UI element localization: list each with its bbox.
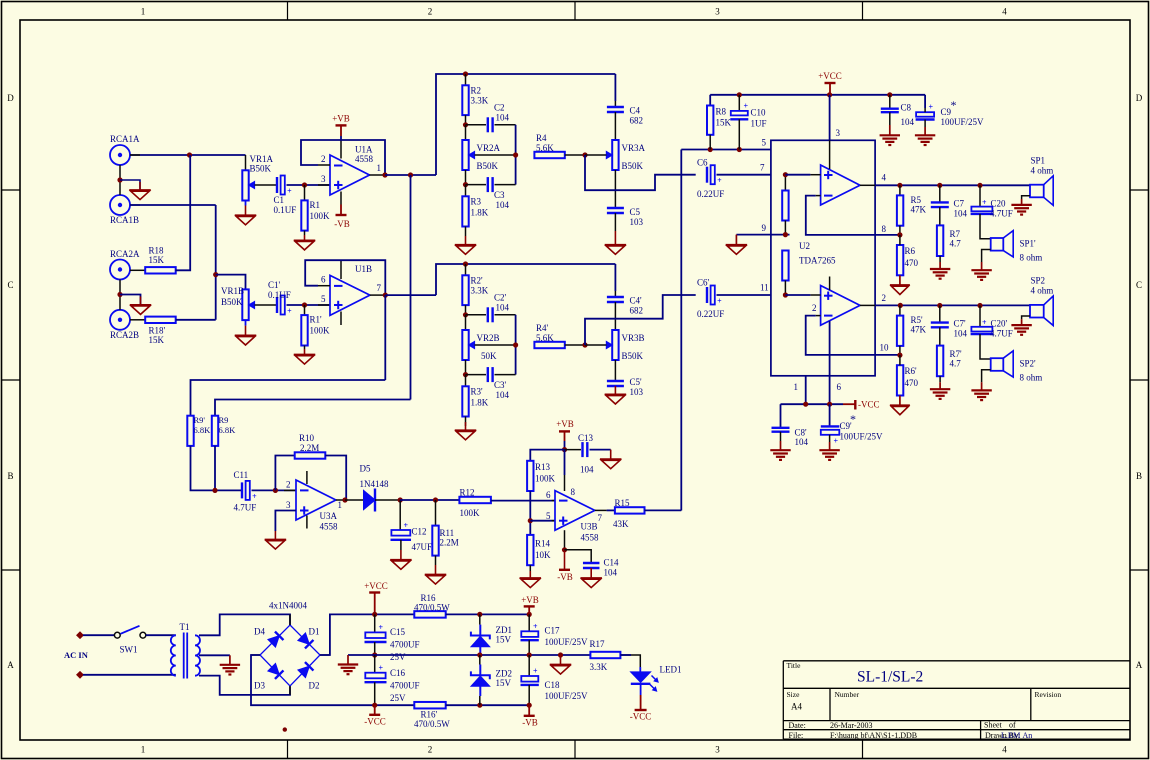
- svg-text:R2: R2: [471, 86, 482, 96]
- svg-text:+VB: +VB: [556, 419, 574, 429]
- svg-text:4.7: 4.7: [950, 239, 962, 249]
- svg-text:R15: R15: [615, 498, 631, 508]
- svg-text:+: +: [834, 437, 839, 446]
- capacitor C8: [887, 92, 892, 97]
- node R8 bottom: [708, 147, 713, 152]
- node pin2: [898, 303, 903, 308]
- power +VCC amp: [827, 92, 832, 97]
- svg-text:4.7UF: 4.7UF: [234, 503, 257, 513]
- svg-text:+: +: [287, 307, 292, 316]
- wire C6 to U2 pin7: [717, 174, 771, 176]
- speaker SP1: [1030, 185, 1044, 198]
- svg-text:6: 6: [321, 275, 326, 285]
- bridge rectifier diamond: [260, 625, 320, 686]
- node R11 top: [433, 497, 438, 502]
- svg-text:3: 3: [836, 128, 841, 138]
- resistor R16: [414, 611, 445, 618]
- svg-text:*: *: [850, 412, 856, 426]
- node R2 bottom: [465, 115, 467, 125]
- svg-text:B: B: [7, 471, 13, 481]
- wire tap to VR1B: [216, 275, 246, 290]
- op-amp U1B: [330, 275, 370, 315]
- ground R1': [304, 346, 306, 350]
- node RCA1A junction: [187, 152, 192, 157]
- capacitor C13: [565, 449, 582, 451]
- capacitor C16: [374, 655, 376, 673]
- capacitor C6: [706, 167, 708, 183]
- svg-text:Number: Number: [835, 690, 860, 699]
- svg-text:1: 1: [338, 500, 343, 510]
- ground C8': [780, 432, 782, 441]
- svg-text:1: 1: [377, 163, 382, 173]
- resistor R6': [897, 365, 903, 395]
- wire C2-C3 loop': [515, 315, 517, 375]
- svg-text:Size: Size: [787, 690, 801, 699]
- wire U3A pin3 ground: [275, 511, 296, 532]
- wire C1' to U1B pin5: [287, 304, 331, 306]
- node wiper: [513, 152, 518, 157]
- svg-text:VR2B: VR2B: [477, 333, 500, 343]
- svg-text:AC IN: AC IN: [64, 650, 89, 660]
- svg-text:8: 8: [571, 487, 576, 497]
- svg-text:8 ohm: 8 ohm: [1020, 253, 1043, 263]
- node U2 pin7: [783, 172, 788, 177]
- connector RCA1B: [110, 195, 130, 215]
- zener ZD1: [479, 614, 481, 624]
- svg-text:C1': C1': [268, 280, 281, 290]
- resistor R16': [414, 702, 445, 709]
- svg-text:C5: C5: [630, 207, 641, 217]
- capacitor C11: [241, 482, 243, 498]
- node C17 bottom: [527, 652, 532, 657]
- connector RCA2A: [110, 260, 130, 280]
- svg-text:2: 2: [428, 745, 433, 755]
- resistor R4': [534, 342, 564, 348]
- svg-text:C14: C14: [604, 558, 620, 568]
- wire C1 to U1A pin3: [287, 184, 331, 186]
- svg-text:SL-1/SL-2: SL-1/SL-2: [857, 669, 923, 686]
- connector RCA2B: [110, 310, 130, 330]
- svg-text:1: 1: [141, 7, 146, 17]
- node ZD2 bottom: [477, 703, 482, 708]
- svg-text:ZD2: ZD2: [496, 669, 513, 679]
- node ZD1 bottom: [477, 652, 482, 657]
- svg-text:47UF: 47UF: [412, 542, 433, 552]
- node U3A pin2: [273, 488, 278, 493]
- svg-text:SP1': SP1': [1020, 239, 1037, 249]
- zener ZD2: [479, 655, 481, 665]
- node R3 top: [465, 170, 467, 185]
- svg-text:100UF/25V: 100UF/25V: [545, 691, 589, 701]
- svg-text:+: +: [379, 664, 384, 673]
- wire R9s to C11: [191, 446, 242, 491]
- wire mid rail: [348, 654, 590, 656]
- svg-text:15K: 15K: [716, 118, 732, 128]
- svg-text:4 ohm: 4 ohm: [1031, 166, 1054, 176]
- svg-text:+: +: [717, 176, 722, 185]
- svg-text:R4: R4: [536, 133, 547, 143]
- svg-text:D: D: [7, 93, 14, 103]
- svg-text:Sheet: Sheet: [984, 721, 1003, 730]
- svg-text:6.8K: 6.8K: [194, 425, 212, 435]
- svg-text:+: +: [287, 187, 292, 196]
- svg-text:+VB: +VB: [332, 114, 350, 124]
- resistor R4: [534, 152, 564, 158]
- node -VCC C16: [372, 703, 377, 708]
- power -VB psu: [528, 705, 530, 716]
- svg-text:43K: 43K: [613, 519, 629, 529]
- svg-text:RCA2B: RCA2B: [110, 330, 139, 340]
- wire U1A feedback: [301, 140, 385, 175]
- wire tone rail: [436, 74, 615, 175]
- wire R13-R14: [529, 491, 531, 535]
- resistor R18: [130, 269, 145, 271]
- svg-text:47K: 47K: [911, 205, 927, 215]
- capacitor C15: [374, 614, 376, 632]
- ground R3: [465, 227, 467, 237]
- svg-text:6: 6: [546, 490, 551, 500]
- wire C20' to SP2': [980, 334, 991, 359]
- capacitor C20: [977, 183, 982, 188]
- wire AC hot to switch: [83, 634, 114, 636]
- svg-text:C16: C16: [390, 668, 406, 678]
- speaker SP2: [1030, 305, 1044, 318]
- wire R18 to node: [176, 269, 180, 271]
- wire R15 feedback vertical: [680, 150, 682, 511]
- diode D1: [298, 633, 309, 644]
- svg-text:11: 11: [760, 283, 769, 293]
- pin3 wire: [829, 95, 831, 141]
- svg-text:R6': R6': [905, 366, 918, 376]
- svg-text:D3: D3: [254, 681, 265, 691]
- wire U1A output to tone rail: [385, 174, 436, 176]
- svg-text:C4': C4': [630, 296, 643, 306]
- svg-text:8: 8: [882, 224, 887, 234]
- svg-text:0.1UF: 0.1UF: [274, 205, 297, 215]
- svg-text:R17: R17: [590, 639, 606, 649]
- svg-text:R2': R2': [471, 276, 484, 286]
- svg-text:R9': R9': [194, 415, 206, 425]
- svg-text:4: 4: [1002, 745, 1007, 755]
- ground input2: [130, 304, 152, 306]
- node C12 top: [398, 497, 403, 502]
- resistor R7: [939, 207, 941, 225]
- resistor R1: [304, 185, 306, 200]
- svg-text:100UF/25V: 100UF/25V: [545, 637, 589, 647]
- svg-text:+VCC: +VCC: [818, 71, 842, 81]
- svg-text:Revision: Revision: [1035, 690, 1062, 699]
- capacitor C4: [614, 74, 616, 101]
- node R4 right: [582, 152, 587, 157]
- svg-text:2: 2: [321, 154, 326, 164]
- svg-text:9: 9: [762, 223, 767, 233]
- power -VB U1A: [340, 205, 342, 216]
- resistor R14: [527, 535, 533, 565]
- svg-text:3.3K: 3.3K: [590, 662, 608, 672]
- wire R18' to VR1B net: [176, 319, 216, 321]
- capacitor C3': [466, 374, 487, 376]
- svg-text:ZD1: ZD1: [496, 625, 513, 635]
- node C18 bottom: [527, 703, 532, 708]
- svg-text:LED1: LED1: [660, 665, 682, 675]
- svg-text:D5: D5: [360, 464, 371, 474]
- svg-text:7: 7: [760, 163, 765, 173]
- svg-text:4700UF: 4700UF: [390, 681, 420, 691]
- svg-text:-VB: -VB: [557, 572, 573, 582]
- svg-text:6: 6: [837, 382, 842, 392]
- svg-text:C2': C2': [494, 293, 507, 303]
- svg-text:3: 3: [321, 174, 326, 184]
- wire C11 to U3A: [252, 489, 297, 491]
- connector RCA1A: [110, 145, 130, 165]
- svg-text:5.6K: 5.6K: [536, 333, 554, 343]
- svg-text:50K: 50K: [481, 351, 497, 361]
- capacitor C7: [937, 183, 942, 188]
- svg-text:C2: C2: [494, 103, 505, 113]
- resistor R2: [465, 74, 467, 85]
- wire pin6: [829, 321, 831, 404]
- svg-text:7: 7: [377, 283, 382, 293]
- svg-text:4558: 4558: [581, 533, 600, 543]
- wire R12 to U3B pin6: [491, 500, 555, 502]
- ground R3': [465, 417, 467, 427]
- svg-text:26-Mar-2003: 26-Mar-2003: [830, 721, 873, 730]
- svg-text:R10: R10: [299, 433, 315, 443]
- power -VCC psu: [374, 705, 376, 715]
- wire pin2 output: [860, 304, 875, 306]
- ground R7: [939, 256, 941, 262]
- svg-text:SP2': SP2': [1020, 359, 1037, 369]
- node R13 top: [562, 447, 567, 452]
- capacitor C9: [924, 95, 926, 108]
- ground VR1A: [245, 201, 247, 206]
- svg-text:T1: T1: [180, 622, 190, 632]
- svg-text:3.3K: 3.3K: [471, 96, 489, 106]
- wire pin1: [805, 376, 807, 404]
- svg-text:D4: D4: [254, 627, 265, 637]
- svg-text:B50K: B50K: [250, 164, 272, 174]
- wire U3B pin4: [564, 530, 566, 550]
- svg-text:10: 10: [880, 343, 890, 353]
- svg-text:+: +: [404, 521, 409, 530]
- wire pin5: [530, 520, 555, 522]
- svg-text:Date:: Date:: [789, 721, 806, 730]
- svg-text:25V: 25V: [390, 693, 406, 703]
- wire R15 to feedback riser: [645, 509, 682, 511]
- svg-text:2.2M: 2.2M: [300, 443, 319, 453]
- svg-text:4: 4: [1002, 7, 1007, 17]
- resistor R3': [465, 375, 467, 387]
- svg-text:VR2A: VR2A: [477, 143, 501, 153]
- wire to R9': [191, 380, 386, 416]
- svg-text:D1: D1: [309, 627, 320, 637]
- svg-text:+: +: [929, 103, 934, 112]
- svg-text:R5: R5: [911, 195, 922, 205]
- capacitor C1': [276, 297, 278, 313]
- ground R6': [899, 396, 901, 406]
- switch SW1: [114, 632, 120, 638]
- wire RCA1B down to VR1B tap: [130, 204, 140, 206]
- svg-text:104: 104: [604, 568, 618, 578]
- resistor R6: [897, 245, 903, 275]
- svg-text:R16': R16': [421, 710, 438, 720]
- ground SP1: [1022, 196, 1030, 199]
- svg-text:+: +: [533, 622, 538, 631]
- svg-text:1.8K: 1.8K: [471, 208, 489, 218]
- node U1B output: [383, 293, 388, 298]
- resistor R15: [595, 509, 607, 511]
- svg-text:U3A: U3A: [320, 511, 338, 521]
- svg-text:5: 5: [762, 138, 767, 148]
- svg-text:B: B: [1136, 471, 1142, 481]
- svg-text:-VCC: -VCC: [630, 712, 652, 722]
- svg-text:R1: R1: [310, 200, 321, 210]
- svg-text:100K: 100K: [535, 474, 556, 484]
- node pin1 rail: [803, 402, 808, 407]
- ground C5': [614, 386, 616, 394]
- wire C2-C3 loop: [515, 125, 517, 185]
- svg-text:1: 1: [141, 745, 146, 755]
- node pin9 internal: [783, 232, 788, 237]
- node pin4: [897, 183, 902, 188]
- svg-text:C: C: [7, 280, 13, 290]
- svg-text:VR3B: VR3B: [622, 333, 645, 343]
- svg-text:104: 104: [496, 200, 510, 210]
- ground R7': [939, 376, 941, 382]
- wire U1B feedback: [305, 260, 385, 295]
- svg-text:C20: C20: [991, 199, 1007, 209]
- svg-text:+: +: [744, 102, 749, 111]
- svg-text:C7': C7': [954, 319, 967, 329]
- ground C9': [829, 435, 831, 442]
- wire tone rail 2: [436, 264, 615, 295]
- svg-text:R7': R7': [950, 349, 963, 359]
- node R2' bottom: [465, 305, 467, 315]
- power +VB psu: [527, 612, 532, 617]
- capacitor C5': [614, 360, 616, 381]
- svg-text:4x1N4004: 4x1N4004: [269, 601, 307, 611]
- svg-text:U2: U2: [799, 241, 810, 251]
- wire U1B branch down: [384, 295, 386, 380]
- svg-text:RCA2A: RCA2A: [110, 249, 140, 259]
- svg-text:470: 470: [905, 258, 919, 268]
- ground R14: [529, 565, 531, 571]
- svg-text:104: 104: [954, 209, 968, 219]
- ground SP2': [982, 370, 991, 383]
- svg-text:5: 5: [546, 511, 551, 521]
- node ZD1 top: [477, 612, 482, 617]
- resistor R5: [899, 185, 901, 195]
- svg-text:0.22UF: 0.22UF: [697, 309, 724, 319]
- svg-text:An: An: [1023, 731, 1033, 740]
- potentiometer VR2A: [465, 125, 467, 140]
- wire to R9: [215, 400, 411, 416]
- svg-text:C6': C6': [697, 278, 710, 288]
- svg-text:SP2: SP2: [1031, 276, 1046, 286]
- svg-text:100UF/25V: 100UF/25V: [840, 431, 884, 441]
- svg-text:R12: R12: [460, 488, 475, 498]
- power -VCC LED: [640, 684, 642, 695]
- svg-text:C8: C8: [901, 103, 912, 113]
- svg-text:104: 104: [580, 465, 594, 475]
- resistor R17: [590, 652, 620, 658]
- svg-text:2: 2: [812, 303, 817, 313]
- node R3' top: [465, 360, 467, 375]
- svg-text:R4': R4': [536, 323, 549, 333]
- wire AC neutral to T1: [83, 674, 176, 676]
- svg-text:104: 104: [954, 329, 968, 339]
- svg-text:5: 5: [321, 294, 326, 304]
- svg-text:4.7UF: 4.7UF: [990, 209, 1013, 219]
- svg-text:R11: R11: [440, 528, 455, 538]
- svg-text:*: *: [951, 98, 957, 112]
- resistor R9: [212, 416, 218, 446]
- svg-text:4558: 4558: [320, 522, 339, 532]
- node mid rail C15/C16: [372, 652, 377, 657]
- svg-text:3: 3: [286, 500, 291, 510]
- ground mid rail right: [558, 652, 563, 657]
- svg-text:C4: C4: [630, 106, 641, 116]
- wire ST-BY rail pin5: [681, 149, 771, 151]
- svg-text:7: 7: [598, 513, 603, 523]
- capacitor C17: [528, 614, 530, 631]
- svg-text:C11: C11: [234, 470, 249, 480]
- svg-text:R3: R3: [471, 197, 482, 207]
- svg-text:47K: 47K: [911, 325, 927, 335]
- resistor R10: [295, 452, 326, 458]
- ground R11: [435, 556, 437, 565]
- svg-text:C12: C12: [412, 527, 427, 537]
- svg-text:U1A: U1A: [355, 145, 373, 155]
- svg-text:3.3K: 3.3K: [471, 286, 489, 296]
- svg-text:C20': C20': [991, 319, 1008, 329]
- svg-text:4.7: 4.7: [950, 359, 962, 369]
- wire U1B output to tone rail 2: [385, 294, 436, 296]
- ground C14: [590, 568, 592, 578]
- svg-text:D: D: [1136, 93, 1143, 103]
- svg-text:2: 2: [428, 7, 433, 17]
- svg-text:-VCC: -VCC: [858, 400, 880, 410]
- svg-text:4: 4: [882, 173, 887, 183]
- ground U3A pin3: [265, 539, 287, 541]
- capacitor C10: [737, 92, 742, 97]
- svg-text:-VB: -VB: [334, 219, 350, 229]
- wire U2B feedback: [816, 315, 821, 317]
- svg-text:6.8K: 6.8K: [219, 425, 237, 435]
- svg-text:R9: R9: [219, 415, 229, 425]
- svg-text:+: +: [982, 318, 987, 327]
- svg-text:R18: R18: [149, 245, 165, 255]
- svg-text:C7: C7: [954, 199, 965, 209]
- svg-text:VR1B: VR1B: [221, 286, 244, 296]
- svg-text:R5': R5': [911, 315, 924, 325]
- wire switch to T1: [146, 634, 176, 636]
- diode D2: [298, 666, 309, 677]
- svg-text:VR3A: VR3A: [622, 143, 646, 153]
- svg-text:U1B: U1B: [355, 264, 372, 274]
- potentiometer VR1B: [242, 289, 248, 320]
- resistor R11: [435, 500, 437, 526]
- node VR1B tap: [213, 272, 218, 277]
- svg-text:B50K: B50K: [622, 161, 644, 171]
- ground C13: [610, 450, 612, 460]
- svg-text:B50K: B50K: [622, 351, 644, 361]
- ground R1: [304, 231, 306, 235]
- node R2 top: [463, 71, 468, 76]
- svg-text:VR1A: VR1A: [250, 154, 274, 164]
- resistor R8: [709, 95, 711, 106]
- svg-text:R6: R6: [905, 246, 916, 256]
